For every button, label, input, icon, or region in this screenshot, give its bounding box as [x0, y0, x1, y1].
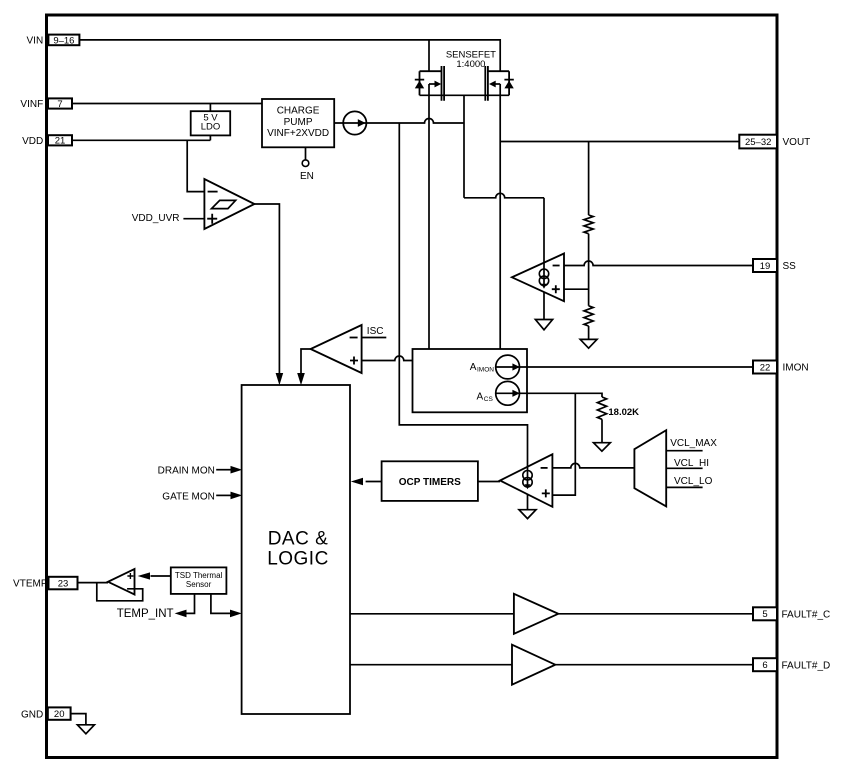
svg-text:9–16: 9–16	[53, 35, 74, 46]
svg-text:VCL_MAX: VCL_MAX	[670, 438, 717, 449]
svg-text:21: 21	[55, 136, 66, 147]
svg-text:LDO: LDO	[201, 122, 221, 133]
svg-text:VTEMP: VTEMP	[13, 579, 48, 590]
svg-text:GATE MON: GATE MON	[162, 491, 215, 502]
svg-text:DRAIN MON: DRAIN MON	[158, 466, 215, 477]
svg-text:DAC &: DAC &	[268, 528, 329, 549]
svg-text:A: A	[470, 362, 477, 373]
svg-text:OCP TIMERS: OCP TIMERS	[399, 477, 461, 488]
svg-text:CHARGE: CHARGE	[277, 106, 320, 117]
svg-text:Sensor: Sensor	[186, 580, 212, 589]
svg-text:A: A	[477, 392, 484, 403]
svg-text:7: 7	[57, 99, 62, 110]
svg-text:ISC: ISC	[367, 326, 384, 337]
svg-text:VDD: VDD	[22, 136, 43, 147]
svg-text:23: 23	[58, 578, 69, 589]
svg-text:VIN: VIN	[27, 36, 44, 47]
svg-text:GND: GND	[21, 709, 43, 720]
svg-text:VINF: VINF	[20, 99, 43, 110]
svg-text:TEMP_INT: TEMP_INT	[117, 608, 174, 620]
svg-text:VOUT: VOUT	[783, 137, 811, 148]
svg-text:FAULT#_C: FAULT#_C	[782, 610, 831, 621]
svg-text:6: 6	[762, 660, 767, 671]
svg-text:VINF+2XVDD: VINF+2XVDD	[267, 128, 329, 139]
svg-text:IMON: IMON	[477, 367, 494, 374]
svg-text:FAULT#_D: FAULT#_D	[782, 660, 831, 671]
svg-text:20: 20	[54, 709, 65, 720]
svg-text:VCL_LO: VCL_LO	[674, 476, 713, 487]
svg-text:5: 5	[762, 609, 767, 620]
svg-text:22: 22	[760, 362, 771, 373]
svg-text:IMON: IMON	[783, 363, 809, 374]
svg-text:LOGIC: LOGIC	[267, 548, 329, 569]
svg-text:SS: SS	[783, 261, 797, 272]
svg-text:VCL_HI: VCL_HI	[674, 458, 709, 469]
svg-text:19: 19	[760, 261, 771, 272]
svg-text:18.02K: 18.02K	[608, 407, 639, 418]
svg-text:25–32: 25–32	[745, 137, 771, 148]
svg-text:TSD Thermal: TSD Thermal	[175, 571, 223, 580]
svg-text:1:4000: 1:4000	[456, 59, 485, 70]
svg-text:CS: CS	[484, 396, 494, 403]
svg-text:EN: EN	[300, 171, 314, 182]
svg-text:VDD_UVR: VDD_UVR	[132, 213, 180, 224]
svg-text:PUMP: PUMP	[284, 117, 313, 128]
